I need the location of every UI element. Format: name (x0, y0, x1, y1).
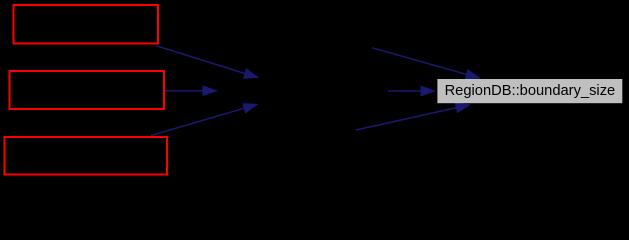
svg-text:RegionDB::boundary_size: RegionDB::boundary_size (445, 83, 616, 99)
node: caller box 2 (truncated, red border, label hidden) (10, 71, 165, 109)
edge E3: box3 -> middle node (curved, arrowhead up-right) (151, 103, 259, 135)
edge E6: middle node -> gray node bottom (arrowhead up-right) (356, 103, 471, 131)
node: current function RegionDB::boundary_size (gray filled) (437, 79, 622, 103)
node: caller box 3 (truncated, red border, label hidden) (5, 137, 168, 175)
node: caller box 1 (truncated, red border, label hidden) (14, 5, 159, 44)
edge E2: box2 -> middle node (horizontal, arrowhead right) (165, 85, 218, 96)
edge E4: middle node -> gray node top (arrowhead down-right) (372, 48, 481, 80)
edge E5: middle node -> gray node left (horizontal, arrowhead right) (388, 86, 436, 97)
edge E1: box1 -> middle node (curved, arrowhead down-right) (156, 46, 260, 79)
